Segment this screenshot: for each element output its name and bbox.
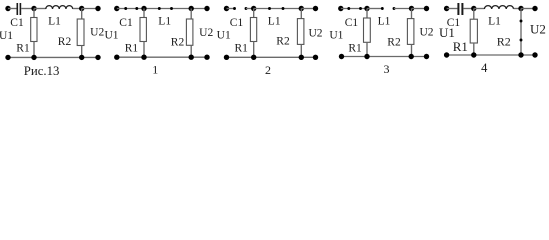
- resistor R1 lead bottom: [366, 42, 368, 56]
- resistor R2 lead top: [411, 9, 413, 20]
- resistor R2 lead bottom: [190, 45, 192, 57]
- svg-text:L1: L1: [268, 16, 281, 28]
- junction dot below R2: [518, 52, 523, 57]
- R2 end dot bottom: [520, 39, 523, 42]
- terminal dot top-right: [204, 6, 209, 11]
- terminal dot top-left: [224, 6, 229, 11]
- svg-text:U2: U2: [530, 21, 546, 36]
- svg-text:Рис.13: Рис.13: [24, 64, 60, 78]
- junction dot below R2: [189, 55, 194, 60]
- node 1 junction dot: [31, 6, 36, 11]
- svg-text:C1: C1: [10, 17, 24, 29]
- terminal dot bottom-right: [95, 55, 100, 60]
- resistor R1 lead bottom: [473, 43, 475, 55]
- svg-text:R2: R2: [387, 37, 401, 49]
- L1 end dot left: [268, 7, 271, 10]
- junction dot below R1: [471, 52, 476, 57]
- svg-text:4: 4: [481, 61, 488, 75]
- resistor R2 body: [297, 19, 304, 45]
- bottom rail wire: [342, 56, 427, 58]
- terminal dot top-right: [424, 6, 429, 11]
- svg-text:U1: U1: [217, 30, 231, 42]
- wire top-left to C1: [8, 8, 17, 10]
- junction dot below R1: [141, 55, 146, 60]
- terminal dot bottom-right: [313, 55, 318, 60]
- svg-text:U1: U1: [0, 30, 13, 42]
- svg-text:U2: U2: [199, 27, 213, 39]
- wire node 1 to L1: [34, 8, 46, 10]
- capacitor C1 (series, two plates): [17, 3, 22, 15]
- wire node 2 to top-right terminal: [301, 8, 315, 10]
- L1 end dot right: [282, 7, 285, 10]
- resistor R2 body: [186, 19, 193, 45]
- svg-text:R2: R2: [497, 35, 511, 49]
- svg-text:2: 2: [265, 63, 271, 77]
- node 2 junction dot: [409, 6, 414, 11]
- bottom rail wire: [227, 56, 316, 58]
- svg-text:U2: U2: [90, 27, 104, 39]
- resistor R1 lead bottom: [33, 42, 35, 58]
- resistor R2 body: [77, 19, 84, 46]
- C1 end dot left: [347, 7, 350, 10]
- svg-text:L1: L1: [488, 16, 501, 28]
- bottom rail wire: [117, 56, 207, 58]
- C1 end dot left: [233, 7, 236, 10]
- L1 end dot left: [158, 7, 161, 10]
- resistor R2 lead top: [300, 9, 302, 20]
- junction dot below R2: [79, 55, 84, 60]
- resistor R1 lead top: [366, 9, 368, 19]
- C1 end dot right: [135, 7, 138, 10]
- terminal dot top-left: [444, 6, 449, 11]
- wire node 2 to top-right terminal: [412, 8, 427, 10]
- svg-text:1: 1: [152, 62, 158, 76]
- svg-text:R1: R1: [16, 42, 30, 54]
- terminal dot bottom-right: [532, 52, 537, 57]
- node 1 junction dot: [141, 6, 146, 11]
- resistor R1 body: [364, 18, 371, 42]
- node 1 junction dot: [471, 6, 476, 11]
- terminal dot bottom-right: [424, 54, 429, 59]
- resistor R1 body: [140, 18, 146, 42]
- wire top-left to node 1: [341, 8, 367, 10]
- wire node 1 to L1 left: [367, 8, 382, 10]
- resistor R2 branch (vertical wire with end dots): [520, 9, 522, 56]
- wire L1 to node 2: [514, 8, 522, 10]
- resistor R2 (shunt) lead top: [81, 9, 83, 20]
- resistor R1 body: [31, 18, 37, 42]
- node 1 junction dot: [251, 6, 256, 11]
- resistor R1 lead top: [253, 9, 255, 18]
- terminal dot top-left: [338, 6, 343, 11]
- svg-text:U1: U1: [329, 30, 343, 42]
- svg-text:U1: U1: [439, 25, 455, 40]
- svg-text:R2: R2: [276, 36, 290, 48]
- svg-text:C1: C1: [345, 17, 359, 29]
- junction dot below R2: [299, 55, 304, 60]
- resistor R2 lead bottom: [81, 46, 83, 58]
- node 2 junction dot: [189, 6, 194, 11]
- svg-text:L1: L1: [378, 16, 391, 28]
- wire C1 to node 1: [463, 8, 473, 10]
- svg-text:R1: R1: [234, 42, 248, 54]
- terminal dot bottom-left: [114, 55, 119, 60]
- bottom rail wire: [447, 54, 535, 56]
- bottom rail wire: [8, 56, 98, 58]
- node 2 junction dot: [79, 6, 84, 11]
- terminal dot bottom-left: [444, 52, 449, 57]
- terminal dot top-left (port 1): [5, 6, 10, 11]
- svg-text:U2: U2: [419, 27, 433, 39]
- terminal dot top-right (port 2): [95, 6, 100, 11]
- svg-text:C1: C1: [230, 17, 244, 29]
- resistor R1 (shunt) lead top: [33, 9, 35, 18]
- terminal dot bottom-left: [339, 54, 344, 59]
- resistor R2 lead top: [190, 9, 192, 20]
- wire node 2 to top-right terminal: [82, 8, 98, 10]
- resistor R1 lead bottom: [253, 42, 255, 58]
- wire C1 to node 1: [21, 8, 34, 10]
- capacitor C1 (series, two plates): [457, 3, 463, 15]
- wire node 1 to node 2: [254, 8, 302, 10]
- svg-text:C1: C1: [119, 17, 133, 29]
- svg-text:R1: R1: [348, 42, 362, 54]
- resistor R2 body: [407, 19, 414, 45]
- wire L1 right to node 2: [394, 8, 412, 10]
- wire top-left to C1: [447, 8, 458, 10]
- top rail wire (continuous): [117, 8, 207, 10]
- terminal dot top-left: [114, 6, 119, 11]
- terminal dot top-right: [532, 6, 537, 11]
- C1 end dot left: [124, 7, 127, 10]
- junction dot below R2: [409, 54, 414, 59]
- resistor R2 lead bottom: [300, 44, 302, 57]
- svg-text:R1: R1: [453, 39, 468, 54]
- wire node 1 to L1: [474, 8, 485, 10]
- R2 end dot top: [520, 20, 523, 23]
- svg-text:R1: R1: [125, 42, 139, 54]
- wire C1 to node 1: [246, 8, 254, 10]
- svg-text:U1: U1: [104, 30, 118, 42]
- wire node 2 to top-right terminal: [521, 8, 535, 10]
- node 1 junction dot: [364, 6, 369, 11]
- resistor R2 lead bottom: [411, 44, 413, 56]
- svg-text:U2: U2: [308, 28, 322, 40]
- terminal dot bottom-left: [224, 55, 229, 60]
- terminal dot bottom-right: [204, 55, 209, 60]
- C1 end dot right: [359, 7, 362, 10]
- wire to C1 left plate: [227, 8, 235, 10]
- L1 end dot left: [381, 7, 384, 10]
- resistor R1 lead top: [473, 9, 475, 20]
- C1 end dot right (gap between = capacitor): [245, 7, 248, 10]
- junction dot below R1: [364, 54, 369, 59]
- svg-text:L1: L1: [158, 16, 171, 28]
- junction dot below R1: [31, 55, 36, 60]
- node 2 junction dot: [299, 6, 304, 11]
- inductor L1 (series coil, 4 arcs): [484, 6, 513, 9]
- resistor R1 body: [470, 19, 477, 43]
- resistor R1 body: [250, 18, 256, 42]
- svg-text:R2: R2: [171, 37, 185, 49]
- junction dot below R1: [251, 55, 256, 60]
- svg-text:L1: L1: [48, 16, 61, 28]
- L1 end dot right: [170, 7, 173, 10]
- resistor R1 lead top: [143, 9, 145, 18]
- terminal dot top-right: [313, 6, 318, 11]
- L1 end dot right (gap between): [393, 7, 396, 10]
- node 2 junction dot: [518, 6, 523, 11]
- terminal dot bottom-left: [5, 55, 10, 60]
- resistor R1 lead bottom: [143, 42, 145, 58]
- svg-text:R2: R2: [58, 36, 72, 48]
- wire L1 to node 2: [73, 8, 82, 10]
- svg-text:3: 3: [384, 62, 390, 76]
- inductor L1 (series coil, 4 arcs): [46, 6, 73, 9]
